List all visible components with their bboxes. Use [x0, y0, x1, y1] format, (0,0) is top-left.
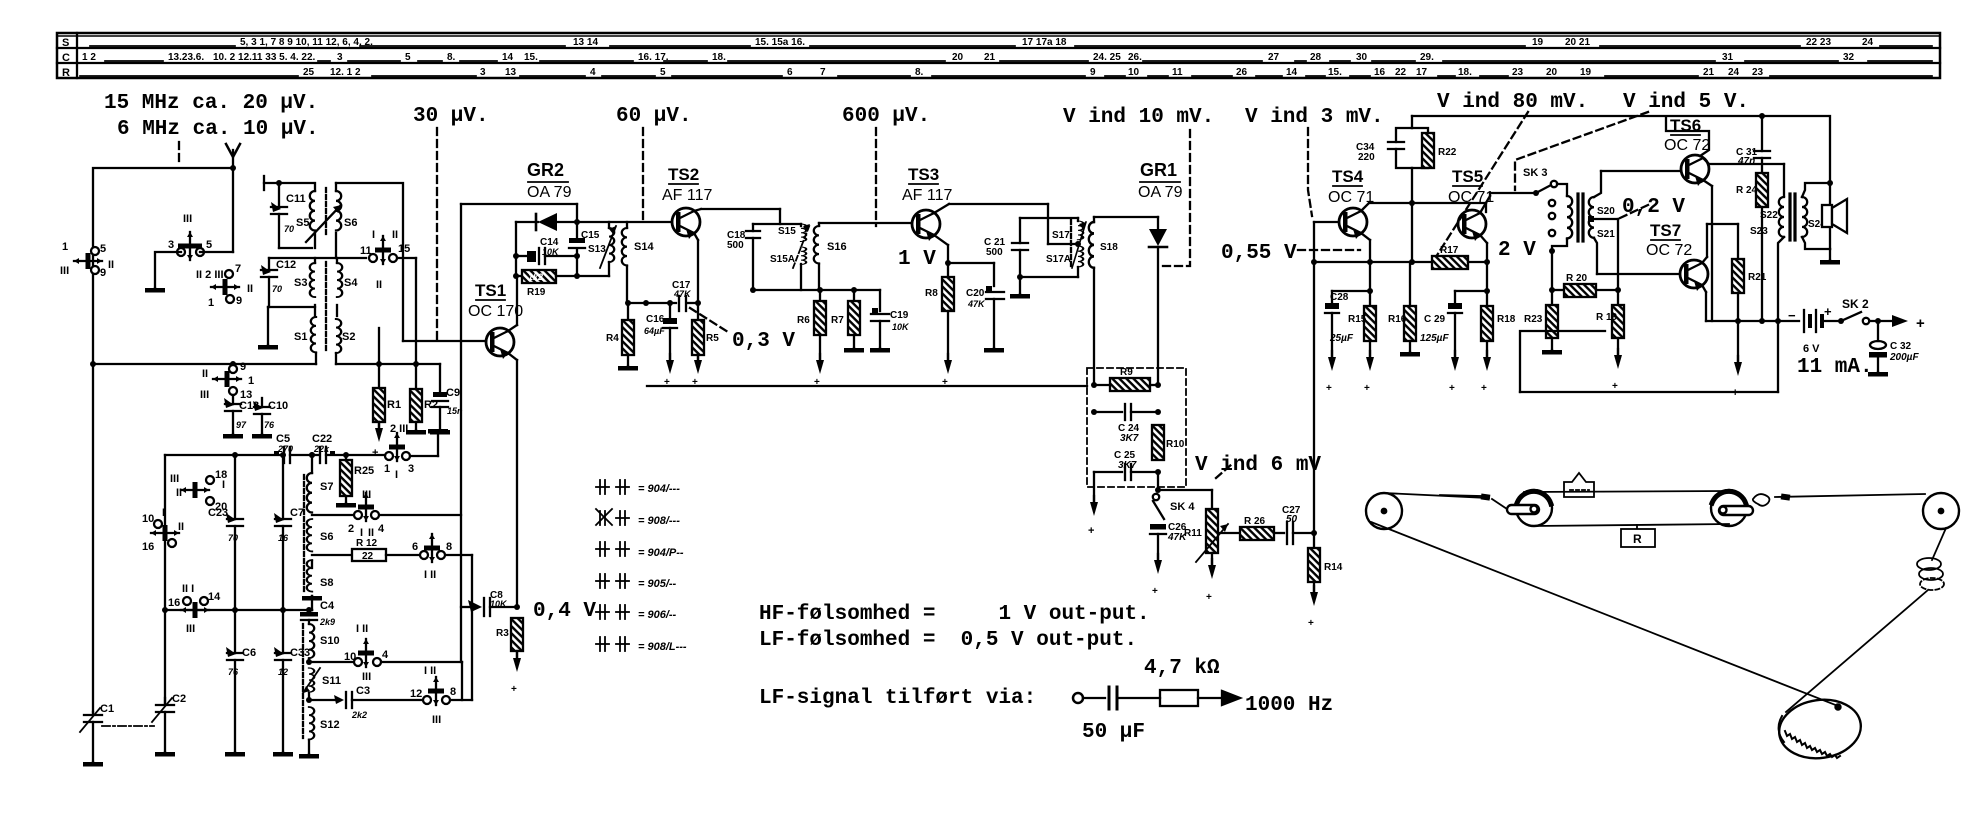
- svg-text:60 µV.: 60 µV.: [616, 105, 692, 128]
- svg-text:2: 2: [348, 523, 354, 535]
- dashed pointer 30 uV: [436, 128, 438, 340]
- capacitor C27: [1287, 522, 1317, 544]
- signal source terminal: [1073, 693, 1083, 703]
- svg-text:R25: R25: [354, 465, 374, 477]
- spring coils: [1917, 558, 1944, 590]
- right cord to spring: [1932, 528, 1946, 560]
- svg-text:C6: C6: [242, 647, 256, 659]
- long diagonal cord: [1371, 522, 1838, 706]
- svg-text:24: 24: [1728, 67, 1740, 78]
- svg-text:+: +: [1088, 525, 1094, 537]
- svg-text:1: 1: [248, 375, 254, 387]
- dashed pointer MHz note: [178, 142, 180, 166]
- svg-text:4: 4: [382, 649, 389, 661]
- tuning arrow: [793, 224, 810, 268]
- cord spring to drum: [1786, 590, 1928, 712]
- svg-text:S3: S3: [294, 277, 307, 289]
- diode GR2: [516, 213, 577, 231]
- svg-text:GR1: GR1: [1140, 160, 1177, 180]
- svg-text:C2: C2: [172, 693, 186, 705]
- svg-text:I: I: [395, 469, 398, 481]
- capacitor 50uF: [1109, 687, 1117, 709]
- svg-text:S17: S17: [1052, 230, 1070, 241]
- capacitor C32: [1868, 321, 1888, 377]
- svg-text:III: III: [183, 213, 192, 225]
- wire row222 to TS2: [577, 221, 672, 223]
- resistor R8: [942, 277, 954, 374]
- svg-text:1k2: 1k2: [528, 272, 543, 282]
- svg-text:270: 270: [277, 444, 293, 454]
- svg-text:2 III: 2 III: [390, 423, 408, 435]
- capacitor C8: [461, 598, 520, 616]
- capacitor C2 variable: [152, 698, 175, 757]
- capacitor C14: [513, 248, 580, 264]
- svg-text:C1: C1: [100, 703, 114, 715]
- TS5 collector to SK3: [1480, 190, 1539, 213]
- dashed pointer 0,3 V: [690, 308, 728, 332]
- coil S6: [336, 183, 341, 231]
- switch S-e2: [420, 534, 445, 562]
- svg-text:5: 5: [660, 67, 666, 78]
- svg-text:C12: C12: [276, 259, 296, 271]
- rail x1314: [1311, 222, 1317, 533]
- long row 364: [90, 361, 316, 367]
- svg-text:C3: C3: [356, 685, 370, 697]
- resistor R10: [1152, 425, 1164, 460]
- svg-text:S23: S23: [1750, 226, 1768, 237]
- svg-text:R7: R7: [831, 315, 844, 326]
- GR2 bottom wire: [577, 275, 609, 277]
- bottom rail: [1706, 318, 1799, 324]
- svg-text:= 906/--: = 906/--: [638, 609, 677, 621]
- capacitor C1 variable: [80, 708, 103, 767]
- svg-text:26: 26: [1236, 67, 1248, 78]
- C11 cell top stub: [264, 176, 313, 190]
- svg-text:70: 70: [272, 284, 282, 294]
- svg-text:C15: C15: [581, 230, 600, 241]
- svg-text:76: 76: [228, 667, 239, 677]
- svg-text:+: +: [1308, 618, 1314, 629]
- svg-text:500: 500: [727, 240, 744, 251]
- svg-text:11 mA.: 11 mA.: [1797, 356, 1873, 379]
- polarity mark C5: [274, 451, 279, 456]
- svg-text:20: 20: [952, 52, 964, 63]
- svg-text:1000 Hz: 1000 Hz: [1245, 694, 1333, 717]
- core dashes S3/S4/S1/S2: [325, 262, 327, 352]
- svg-text:S5: S5: [296, 217, 309, 229]
- svg-text:S1: S1: [294, 331, 307, 343]
- svg-text:9: 9: [236, 295, 242, 307]
- pulley mid-left: [1507, 490, 1552, 526]
- svg-text:AF 117: AF 117: [902, 187, 953, 204]
- svg-text:+: +: [1916, 315, 1925, 332]
- svg-text:+: +: [372, 447, 378, 459]
- svg-text:15: 15: [398, 243, 410, 255]
- row 303: [625, 300, 701, 306]
- wire S18 top to diode: [1094, 216, 1158, 218]
- core bars: [1578, 194, 1583, 241]
- TS2 emitter top wire: [694, 209, 780, 224]
- svg-text:R17: R17: [1440, 245, 1459, 256]
- svg-text:7: 7: [235, 263, 241, 275]
- svg-text:R19: R19: [527, 287, 546, 298]
- coil S12: [309, 707, 314, 739]
- svg-text:S12: S12: [320, 719, 340, 731]
- svg-text:S13: S13: [588, 244, 606, 255]
- svg-text:= 905/--: = 905/--: [638, 578, 677, 590]
- GR2 top wire: [461, 203, 577, 205]
- coil S5: [310, 183, 315, 231]
- svg-text:11: 11: [1172, 67, 1183, 78]
- capacitor C20: [984, 286, 1004, 353]
- dashed pointer V ind 10 mV: [1162, 130, 1190, 266]
- svg-text:SK 4: SK 4: [1170, 501, 1195, 513]
- TS4 labels: [1328, 167, 1374, 206]
- dashed pointer 0,55 V: [1298, 249, 1360, 251]
- svg-text:9: 9: [1090, 67, 1096, 78]
- svg-text:OC 72: OC 72: [1664, 137, 1710, 154]
- transistor TS4: [1339, 208, 1367, 239]
- svg-text:LF-følsomhed = 0,5 V out-put.: LF-følsomhed = 0,5 V out-put.: [759, 629, 1137, 652]
- svg-text:+: +: [942, 377, 948, 388]
- wire row 307: [268, 305, 337, 316]
- svg-text:C10: C10: [268, 400, 288, 412]
- svg-text:18.: 18.: [712, 52, 726, 63]
- svg-text:OC 71: OC 71: [1448, 189, 1494, 206]
- svg-text:+: +: [1152, 586, 1158, 597]
- svg-text:29.: 29.: [1420, 52, 1434, 63]
- svg-text:30 µV.: 30 µV.: [413, 105, 489, 128]
- svg-text:3: 3: [168, 239, 174, 251]
- svg-text:R4: R4: [606, 333, 619, 344]
- svg-text:C4: C4: [320, 600, 335, 612]
- svg-text:1 V: 1 V: [898, 248, 936, 271]
- svg-text:R 12: R 12: [356, 538, 378, 549]
- svg-text:12: 12: [278, 667, 288, 677]
- svg-text:S16: S16: [827, 241, 847, 253]
- transistor TS1: [486, 328, 514, 359]
- cord band top: [1524, 491, 1729, 492]
- svg-text:R11: R11: [1184, 528, 1202, 539]
- row labels S C R: [62, 37, 70, 79]
- svg-text:9: 9: [100, 267, 106, 279]
- svg-text:S10: S10: [320, 635, 340, 647]
- ground S12: [299, 740, 319, 759]
- svg-text:V ind 3 mV.: V ind 3 mV.: [1245, 106, 1384, 129]
- battery 6V: [1804, 310, 1840, 332]
- switch S-b1: [369, 236, 397, 264]
- resistor R1: [373, 388, 385, 442]
- coil S3: [310, 258, 315, 297]
- switch S-d2: [151, 520, 179, 547]
- svg-text:C33: C33: [290, 647, 310, 659]
- svg-text:21: 21: [984, 52, 996, 63]
- GR2 left rail: [515, 222, 517, 276]
- wire top: [93, 168, 233, 712]
- svg-text:70: 70: [284, 224, 294, 234]
- svg-text:76: 76: [264, 420, 275, 430]
- switch S-a3: [211, 270, 239, 303]
- svg-text:19: 19: [1580, 67, 1592, 78]
- capacitor C17: [679, 296, 686, 311]
- svg-text:16: 16: [168, 597, 180, 609]
- bus 455 left: [165, 452, 286, 458]
- svg-text:25: 25: [303, 67, 315, 78]
- svg-text:31: 31: [1722, 52, 1734, 63]
- capacitor C22: [309, 447, 385, 463]
- svg-text:3K7: 3K7: [1120, 433, 1139, 444]
- svg-text:I: I: [372, 229, 375, 241]
- svg-text:III: III: [170, 473, 179, 485]
- bottom rail 2: [1520, 331, 1778, 392]
- svg-text:TS2: TS2: [668, 165, 699, 184]
- svg-text:= 904/---: = 904/---: [638, 483, 680, 495]
- capacitor C10 trimmer: [252, 398, 272, 439]
- C28 column: [1325, 291, 1370, 371]
- svg-text:S7: S7: [320, 481, 333, 493]
- svg-text:16: 16: [142, 541, 154, 553]
- capacitor C6 trimmer: [225, 610, 245, 757]
- svg-text:C19: C19: [890, 310, 909, 321]
- wire sw to ground: [155, 252, 181, 288]
- svg-text:GR2: GR2: [527, 160, 564, 180]
- gang link dash-dot: [102, 725, 154, 727]
- svg-text:C 29: C 29: [1424, 314, 1446, 325]
- TS1 base wire: [403, 340, 486, 342]
- hook right + spring: [1753, 493, 1791, 505]
- TS6 labels: [1664, 116, 1710, 154]
- switch S-f1: [181, 597, 209, 618]
- svg-text:2 V: 2 V: [1498, 239, 1536, 262]
- GR1 labels: [1138, 160, 1183, 201]
- resistor R15: [1364, 262, 1376, 371]
- capacitor C24: [1091, 404, 1161, 420]
- svg-text:4: 4: [378, 523, 385, 535]
- svg-text:III: III: [432, 714, 441, 726]
- capacitor C9: [430, 364, 450, 435]
- labels S1 S2: [294, 331, 355, 343]
- svg-text:II: II: [247, 283, 253, 295]
- wire sec top to TS6 base: [1601, 170, 1681, 172]
- svg-text:LF-signal tilført via:: LF-signal tilført via:: [759, 687, 1036, 710]
- svg-text:V ind 10 mV.: V ind 10 mV.: [1063, 106, 1214, 129]
- svg-text:9: 9: [240, 361, 246, 373]
- core bars: [1790, 194, 1795, 240]
- svg-text:10: 10: [1128, 67, 1140, 78]
- svg-text:TS5: TS5: [1452, 167, 1483, 186]
- svg-text:C28: C28: [1330, 292, 1349, 303]
- wire sw to ant: [200, 251, 233, 253]
- svg-text:III: III: [186, 623, 195, 635]
- capacitor C21: [1012, 242, 1028, 244]
- TS5 emitter: [1480, 235, 1487, 306]
- TS4 base wire: [1314, 221, 1339, 223]
- svg-text:V ind 80 mV.: V ind 80 mV.: [1437, 91, 1588, 114]
- resistor R25: [336, 455, 356, 508]
- svg-text:+: +: [1449, 383, 1455, 394]
- capacitor C34: [1388, 141, 1404, 143]
- row 700 C3: [306, 692, 472, 708]
- svg-text:24. 25: 24. 25: [1093, 52, 1121, 63]
- resistor 4,7k: [1160, 690, 1198, 706]
- R row numbers: [303, 67, 1764, 78]
- loudspeaker: [1822, 199, 1847, 233]
- svg-text:R22: R22: [1438, 147, 1457, 158]
- svg-text:7: 7: [820, 67, 826, 78]
- svg-text:III: III: [200, 389, 209, 401]
- IF can C21/S17: [1010, 204, 1086, 299]
- dashed pointer V ind 3 mV: [1308, 128, 1312, 216]
- svg-text:8: 8: [446, 541, 452, 553]
- svg-text:R1: R1: [387, 399, 401, 411]
- TS6 emitter: [1703, 180, 1712, 321]
- svg-text:OA 79: OA 79: [527, 184, 572, 201]
- core dashes: [1070, 220, 1072, 268]
- svg-text:OC 72: OC 72: [1646, 242, 1692, 259]
- dashed detector box: [1087, 368, 1186, 487]
- svg-text:3: 3: [337, 52, 343, 63]
- svg-text:2k9: 2k9: [319, 617, 335, 627]
- capacitor C4: [300, 607, 318, 624]
- resistor R6: [814, 290, 826, 374]
- coil S1: [311, 317, 316, 352]
- svg-text:5, 3 1, 7 8 9 10, 11 12, 6, 4: 5, 3 1, 7 8 9 10, 11 12, 6, 4, 2.: [240, 37, 373, 48]
- svg-text:S18: S18: [1100, 242, 1118, 253]
- svg-text:C7: C7: [290, 507, 304, 519]
- TS5 base drop: [1485, 203, 1487, 212]
- TS4 emitter: [1361, 233, 1370, 262]
- coil S15A: [801, 247, 806, 264]
- labels S3 S4: [294, 277, 358, 289]
- svg-text:15.: 15.: [1328, 67, 1342, 78]
- svg-text:17 17a 18: 17 17a 18: [1022, 37, 1067, 48]
- svg-text:50: 50: [1286, 514, 1298, 525]
- svg-text:−: −: [1788, 308, 1796, 323]
- switch S-f2: [354, 639, 381, 667]
- svg-text:R5: R5: [706, 333, 719, 344]
- resistor R4: [618, 303, 638, 371]
- svg-text:4,7 kΩ: 4,7 kΩ: [1144, 657, 1220, 680]
- svg-text:70: 70: [228, 533, 238, 543]
- dashed pointer 0,2 V: [1620, 205, 1648, 218]
- svg-text:S22: S22: [1760, 210, 1778, 221]
- resistor R22: [1422, 133, 1434, 168]
- tuning arrow: [1072, 222, 1086, 268]
- wire sec bottom to TS7 base: [1597, 273, 1680, 275]
- contacts: [1549, 200, 1555, 236]
- svg-text:6: 6: [412, 541, 418, 553]
- svg-text:+: +: [1326, 383, 1332, 394]
- resistor R23: [1542, 290, 1562, 355]
- svg-text:= 908/---: = 908/---: [638, 515, 680, 527]
- C row numbers: [82, 52, 1855, 63]
- dashed pointer V ind 80 mV: [1434, 112, 1528, 260]
- bottom row: [1020, 276, 1078, 278]
- tap row: [1048, 243, 1078, 245]
- resistor R16: [1400, 262, 1420, 357]
- rail x463: [460, 204, 462, 662]
- labels S5 S6: [296, 217, 357, 229]
- cord top left: [1384, 493, 1489, 498]
- cord band bottom: [1534, 524, 1729, 526]
- svg-text:R: R: [62, 67, 70, 79]
- coil S17A: [1078, 246, 1083, 267]
- TS2 labels: [662, 165, 713, 204]
- capacitor C15: [569, 238, 585, 248]
- svg-text:AF 117: AF 117: [662, 187, 713, 204]
- svg-text:5: 5: [100, 243, 106, 255]
- drive drum: [1775, 695, 1864, 764]
- transistor TS5: [1458, 210, 1486, 241]
- coil S2: [336, 319, 341, 353]
- svg-text:18: 18: [215, 469, 227, 481]
- svg-text:8.: 8.: [447, 52, 456, 63]
- svg-text:R14: R14: [1324, 562, 1343, 573]
- resistor R2: [406, 366, 426, 435]
- resistor R7: [844, 290, 864, 353]
- svg-text:16. 17.: 16. 17.: [638, 52, 669, 63]
- svg-text:5: 5: [206, 239, 212, 251]
- C31/R24 column: [1754, 113, 1770, 321]
- svg-text:3: 3: [408, 463, 414, 475]
- TS7 emitter: [1702, 285, 1706, 321]
- GR2 labels: [527, 160, 572, 201]
- coil S6b: [307, 519, 312, 551]
- svg-text:S17A: S17A: [1046, 254, 1071, 265]
- svg-text:4: 4: [590, 67, 596, 78]
- transistor TS7: [1680, 260, 1708, 291]
- wire to R11: [1158, 490, 1212, 509]
- row 515: [312, 514, 461, 516]
- svg-text:30: 30: [1356, 52, 1368, 63]
- switch S-d1: [181, 476, 214, 505]
- svg-text:R9: R9: [1120, 367, 1133, 378]
- svg-text:R8: R8: [925, 288, 938, 299]
- svg-text:16: 16: [1374, 67, 1386, 78]
- svg-text:6 MHz ca. 10 µV.: 6 MHz ca. 10 µV.: [117, 118, 319, 141]
- capacitor C23 trimmer: [226, 455, 243, 610]
- svg-text:24: 24: [1862, 37, 1874, 48]
- svg-text:11: 11: [360, 245, 372, 257]
- scale table frame: [57, 33, 1940, 78]
- svg-text:II: II: [108, 259, 114, 271]
- switch SK3: [1536, 181, 1557, 193]
- capacitor C16: [663, 300, 677, 374]
- switch SA2: [177, 232, 204, 260]
- switch SA1: [74, 247, 102, 274]
- C34/R22 collector load: [1388, 116, 1434, 265]
- svg-text:0,55 V: 0,55 V: [1221, 242, 1297, 265]
- svg-text:15 MHz ca. 20 µV.: 15 MHz ca. 20 µV.: [104, 92, 318, 115]
- TS2 collector drop: [694, 233, 698, 303]
- svg-text:16: 16: [278, 533, 289, 543]
- svg-text:II I: II I: [182, 583, 194, 595]
- svg-text:10. 2 12.11 33 5. 4. 22.: 10. 2 12.11 33 5. 4. 22.: [213, 52, 316, 63]
- svg-text:II: II: [202, 368, 208, 380]
- svg-text:R23: R23: [1524, 314, 1543, 325]
- resistor R14: [1308, 533, 1320, 606]
- coil S11 with arrow: [303, 668, 320, 693]
- coil S16: [814, 223, 819, 290]
- svg-text:23: 23: [1752, 67, 1764, 78]
- coil S15: [801, 224, 806, 241]
- svg-text:200µF: 200µF: [1889, 352, 1919, 363]
- svg-text:C9: C9: [446, 387, 460, 399]
- svg-text:SK 3: SK 3: [1523, 167, 1547, 179]
- capacitor C25: [1094, 464, 1161, 480]
- svg-text:3: 3: [480, 67, 486, 78]
- svg-text:III: III: [362, 671, 371, 683]
